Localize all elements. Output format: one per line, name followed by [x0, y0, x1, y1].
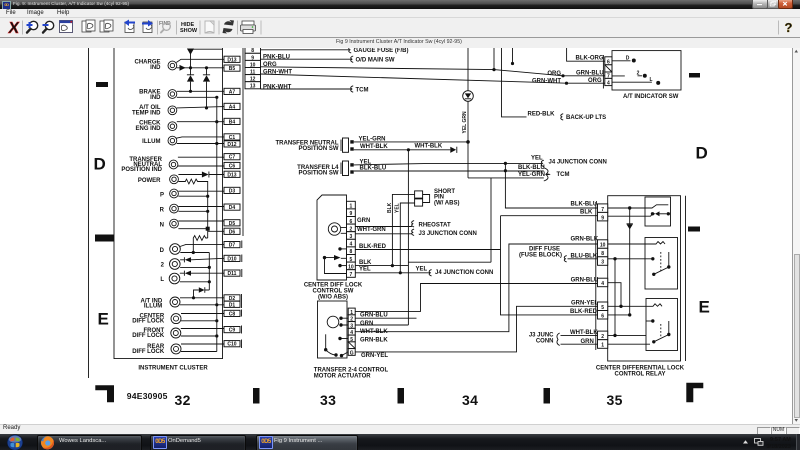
- relay 3 box: [646, 299, 678, 351]
- wire pin1 inside: [608, 343, 650, 345]
- wire pin6 inside: [608, 314, 630, 316]
- relay 1 box: [645, 197, 671, 226]
- node YEL-GRN junction: [466, 140, 470, 144]
- wire ILLUM to D12: [177, 143, 224, 145]
- svg-text:YEL: YEL: [359, 267, 371, 273]
- svg-text:MOTOR ACTUATOR: MOTOR ACTUATOR: [314, 374, 371, 380]
- pin C6: [224, 162, 240, 169]
- wire CHARGE to B5 with arrow: [177, 67, 224, 69]
- pin 4: [598, 278, 608, 287]
- chain vertical lower: [208, 253, 210, 291]
- svg-text:WHT-BLK: WHT-BLK: [570, 330, 598, 336]
- pin 3: [598, 257, 608, 266]
- svg-text:D: D: [160, 248, 165, 254]
- svg-text:3/18/2023: 3/18/2023: [767, 444, 791, 450]
- motor in actuator: [327, 316, 339, 328]
- svg-text:34: 34: [462, 392, 478, 408]
- relay 3 switch: [646, 320, 653, 322]
- svg-text:YEL: YEL: [416, 266, 428, 272]
- svg-text:GRN-WHT: GRN-WHT: [532, 78, 561, 84]
- pin D13 power: [224, 171, 240, 178]
- ondemand5 taskbar button: [150, 435, 246, 450]
- corner mark bottom right: [686, 383, 703, 403]
- svg-text:D12: D12: [227, 142, 236, 148]
- svg-text:A4: A4: [229, 104, 236, 110]
- registration tick bottom 3: [544, 388, 551, 404]
- pin 5: [598, 302, 608, 311]
- pin 9: [245, 53, 261, 61]
- lamp N: [160, 219, 179, 228]
- pin 4: [605, 78, 612, 86]
- svg-text:TCM: TCM: [356, 87, 369, 93]
- pin 8: [598, 248, 608, 257]
- pin D12: [224, 141, 240, 148]
- wire loop via J4 riser: [408, 178, 491, 262]
- pin D11: [224, 270, 240, 277]
- svg-text:WHT-BLK: WHT-BLK: [415, 144, 443, 150]
- relay 2 box: [645, 238, 678, 290]
- pin 10: [598, 240, 608, 249]
- limit switch in actuator: [325, 334, 327, 349]
- transfer L4 position sw connector: [297, 161, 354, 176]
- resistor POWER: [178, 179, 207, 238]
- wire A/T illum to D2: [180, 297, 224, 299]
- svg-text:P: P: [160, 192, 164, 198]
- pin D10: [224, 255, 240, 262]
- fig9 taskbar button (active): [256, 435, 358, 450]
- registration tick bottom 2: [398, 388, 405, 404]
- pin C8: [224, 310, 240, 317]
- connector bracket ticks: [241, 241, 243, 349]
- contact L: [612, 81, 652, 83]
- taskbar: [0, 434, 800, 450]
- lamp POWER: [138, 175, 179, 184]
- svg-text:E: E: [98, 310, 109, 329]
- svg-text:WHT-GRN: WHT-GRN: [357, 227, 386, 233]
- diode D2 on charge-a/t oil link: [203, 68, 210, 75]
- svg-text:(W/ ABS): (W/ ABS): [434, 200, 459, 206]
- registration tick left upper: [96, 82, 108, 87]
- svg-text:BLK-RED: BLK-RED: [570, 309, 598, 315]
- svg-text:C10: C10: [227, 342, 236, 348]
- pin B4: [224, 118, 240, 125]
- diode (one-way) on YEL-GRN riser: [467, 48, 469, 91]
- svg-text:CONTROL RELAY: CONTROL RELAY: [614, 371, 665, 377]
- svg-text:A/T INDICATOR SW: A/T INDICATOR SW: [623, 94, 679, 100]
- svg-text:GRN: GRN: [360, 321, 373, 327]
- svg-text:IND: IND: [150, 95, 161, 101]
- svg-text:1: 1: [601, 343, 604, 349]
- TCM brace: [544, 168, 550, 181]
- pin C10: [224, 341, 240, 348]
- svg-text:RHEOSTAT: RHEOSTAT: [419, 222, 451, 228]
- svg-text:32: 32: [175, 392, 191, 408]
- svg-text:35: 35: [607, 392, 623, 408]
- wire YEL short pin riser: [400, 203, 414, 273]
- system tray: [735, 434, 800, 450]
- svg-text:BLK: BLK: [359, 260, 372, 266]
- toolbar: [0, 18, 800, 38]
- svg-text:2: 2: [601, 334, 604, 340]
- wire A/T OIL to A4: [177, 107, 224, 108]
- pin 5: [347, 255, 356, 263]
- svg-text:D3: D3: [229, 188, 236, 194]
- wire junction to D6: [208, 230, 224, 232]
- svg-text:SHOW: SHOW: [180, 28, 198, 34]
- svg-text:BLK-ORG: BLK-ORG: [576, 55, 604, 61]
- svg-text:DIFF FUSE: DIFF FUSE: [529, 246, 560, 252]
- svg-text:9: 9: [601, 215, 604, 221]
- svg-text:9:57 AM: 9:57 AM: [770, 437, 791, 443]
- wire A/T illum to D1: [180, 304, 224, 306]
- pin B5: [224, 65, 240, 72]
- pin C1: [224, 134, 240, 141]
- svg-text:DIFF LOCK: DIFF LOCK: [132, 319, 165, 325]
- svg-text:ORG: ORG: [547, 71, 561, 77]
- svg-text:YEL: YEL: [531, 155, 543, 161]
- svg-text:RED-BLK: RED-BLK: [528, 112, 556, 118]
- pin 3: [347, 232, 356, 240]
- svg-text:GRN-BLU: GRN-BLU: [571, 278, 599, 284]
- svg-text:BLK-BLU: BLK-BLU: [518, 165, 545, 171]
- svg-text:D7: D7: [229, 243, 236, 249]
- wire FRONT DIFF LOCK to bus: [181, 335, 217, 337]
- pin A4: [224, 103, 240, 110]
- svg-text:INSTRUMENT CLUSTER: INSTRUMENT CLUSTER: [138, 366, 208, 372]
- svg-text:C9: C9: [229, 328, 236, 334]
- lamp A/T OIL TEMP IND: [132, 105, 177, 117]
- wire L to D11: [191, 272, 224, 274]
- stub wire vertical x494: [493, 48, 495, 70]
- relay internal bus: [614, 259, 616, 336]
- svg-text:J3 JUNCTION CONN: J3 JUNCTION CONN: [419, 231, 477, 237]
- relay 2 coil: [608, 242, 665, 245]
- svg-text:GRN-BLK: GRN-BLK: [571, 236, 599, 242]
- svg-text:2: 2: [637, 71, 640, 77]
- window title bar: [0, 0, 800, 9]
- svg-text:4: 4: [607, 81, 610, 87]
- contact 2: [612, 75, 642, 77]
- wire P to D3: [178, 190, 224, 192]
- firefox taskbar button: [37, 435, 142, 450]
- pin 8: [347, 247, 356, 255]
- svg-text:BACK-UP LTS: BACK-UP LTS: [566, 115, 606, 121]
- svg-text:D13: D13: [227, 172, 236, 178]
- wire ILLUM to C1: [176, 137, 224, 138]
- wire YEL-GRN to TCM: [468, 177, 544, 179]
- lamp CENTER DIFF LOCK: [132, 314, 181, 325]
- pin 7: [605, 72, 612, 80]
- pin D2: [224, 295, 240, 302]
- wire CHARGE to D13: [176, 59, 224, 62]
- svg-text:L: L: [649, 77, 652, 83]
- pin A7: [224, 88, 240, 95]
- connector bracket line right of pin boxes: [242, 48, 244, 236]
- svg-text:4: 4: [601, 281, 604, 287]
- svg-text:?: ?: [785, 20, 793, 35]
- svg-text:GRN-BLU: GRN-BLU: [360, 312, 388, 318]
- svg-text:J4 JUNCTION CONN: J4 JUNCTION CONN: [435, 270, 493, 276]
- pin D4: [224, 204, 240, 211]
- svg-text:D10: D10: [227, 256, 236, 262]
- svg-text:TEMP IND: TEMP IND: [132, 110, 161, 116]
- pin 2: [347, 224, 356, 232]
- relay body: [608, 196, 681, 361]
- svg-text:2: 2: [161, 263, 165, 269]
- svg-text:N: N: [160, 222, 164, 228]
- wire 2 to chain: [180, 266, 209, 268]
- wire N to D5: [178, 220, 224, 222]
- wire 2 to D10: [191, 258, 224, 260]
- svg-text:DIFF LOCK: DIFF LOCK: [132, 349, 165, 355]
- svg-text:BLK-RED: BLK-RED: [359, 244, 387, 250]
- svg-text:POWER: POWER: [138, 178, 161, 184]
- relay 2 switch: [608, 258, 651, 260]
- svg-text:10: 10: [600, 243, 606, 249]
- wire FRONT DIFF LOCK to C9: [181, 328, 224, 330]
- svg-text:GRN-YEL: GRN-YEL: [571, 301, 598, 307]
- svg-text:POSITION IND: POSITION IND: [121, 167, 162, 173]
- svg-text:D4: D4: [229, 205, 236, 211]
- diode on L wire: [180, 271, 185, 276]
- svg-text:GRN-YEL: GRN-YEL: [361, 353, 388, 359]
- transfer neutral position sw connector: [276, 138, 354, 152]
- pin 8: [245, 46, 261, 54]
- relay 1 coil: [608, 205, 668, 208]
- pin 2: [348, 315, 355, 323]
- svg-text:ILLUM: ILLUM: [144, 303, 162, 309]
- svg-text:C7: C7: [229, 155, 236, 161]
- pin D1: [224, 301, 240, 308]
- vertical scrollbar: [792, 48, 800, 424]
- svg-text:L: L: [160, 277, 164, 283]
- svg-text:BLK: BLK: [580, 209, 593, 215]
- pin 7: [598, 204, 608, 213]
- svg-text:WHT-BLK: WHT-BLK: [360, 144, 388, 150]
- svg-text:C6: C6: [229, 164, 236, 170]
- wire TNP IND to C6: [178, 165, 224, 167]
- wire BLK relay pin 9 riser to BLK-RED pin 6: [501, 216, 598, 315]
- wire ORG into pin 4: [565, 82, 568, 85]
- pin 7: [347, 270, 356, 278]
- svg-text:B4: B4: [229, 119, 236, 125]
- svg-text:D6: D6: [229, 229, 236, 235]
- pin 1: [347, 201, 356, 209]
- svg-text:D: D: [94, 155, 106, 174]
- pin 6: [605, 57, 612, 66]
- wire R to D4: [178, 206, 224, 208]
- switch contact arrow: [323, 256, 326, 259]
- svg-text:ORG: ORG: [588, 78, 602, 84]
- pin D13: [224, 56, 240, 63]
- svg-text:D5: D5: [229, 221, 236, 227]
- svg-text:POSITION SW: POSITION SW: [298, 170, 338, 176]
- wire TNP IND to C7: [178, 156, 224, 158]
- wire BLK-BLU riser to relay pin 7: [505, 163, 597, 208]
- wire BLK short pin riser: [392, 194, 414, 265]
- svg-text:8: 8: [601, 251, 604, 257]
- caption strip: [0, 38, 800, 49]
- diode D1 on charge-brake link: [187, 74, 194, 76]
- svg-text:GRN-BLK: GRN-BLK: [360, 338, 388, 344]
- wire CENTER DIFF LOCK to bus: [181, 320, 217, 322]
- wire REAR DIFF LOCK to bus: [181, 351, 217, 353]
- relay 3 coil: [608, 304, 662, 307]
- lamp in control sw: [328, 223, 340, 235]
- wire CHECK ENG to B4: [177, 121, 224, 123]
- wire L to chain: [180, 281, 210, 283]
- pin 9: [347, 209, 356, 217]
- svg-text:E: E: [699, 298, 710, 317]
- status bar: [0, 424, 800, 435]
- registration tick left middle: [95, 235, 114, 242]
- svg-text:GAUGE FUSE (F/B): GAUGE FUSE (F/B): [354, 48, 409, 54]
- pin 2: [598, 331, 608, 340]
- svg-text:6: 6: [601, 313, 604, 319]
- svg-text:X: X: [7, 19, 20, 37]
- svg-text:C8: C8: [229, 311, 236, 317]
- diode on relay bus: [629, 208, 631, 315]
- lamp D: [160, 244, 181, 255]
- svg-text:BLK: BLK: [387, 202, 393, 213]
- wire pin2 inside: [608, 334, 646, 336]
- short pin (w/ abs): [415, 189, 460, 207]
- svg-text:D: D: [696, 144, 708, 163]
- pin C9: [224, 327, 240, 334]
- pin 1: [348, 308, 355, 316]
- svg-text:O/D MAIN SW: O/D MAIN SW: [356, 58, 395, 64]
- svg-text:D11: D11: [228, 271, 237, 277]
- svg-text:7: 7: [601, 207, 604, 213]
- lamp BRAKE IND: [139, 89, 177, 101]
- registration tick right middle: [688, 227, 700, 232]
- center diff lock control sw body: [317, 195, 347, 280]
- wire GRN-BLU into pin 7: [561, 74, 564, 77]
- pin 3: [348, 322, 355, 330]
- svg-text:D13: D13: [227, 57, 236, 63]
- svg-text:YEL-GRN: YEL-GRN: [518, 172, 545, 178]
- diode on A/T illum branch: [194, 287, 210, 298]
- wire REAR DIFF LOCK to C10: [181, 343, 224, 345]
- svg-text:5: 5: [601, 305, 604, 311]
- diode on 2 wire: [180, 257, 184, 262]
- wire BLK-ORG: [567, 48, 605, 61]
- svg-text:GRN: GRN: [357, 218, 370, 224]
- svg-text:ENG IND: ENG IND: [135, 126, 161, 132]
- svg-text:(FUSE BLOCK): (FUSE BLOCK): [519, 252, 562, 258]
- lamp CHECK ENG IND: [135, 121, 176, 133]
- pin 4: [348, 328, 355, 336]
- svg-text:TCM: TCM: [557, 172, 570, 178]
- instrument cluster box: [114, 48, 223, 359]
- wire GRN to relay pin 1: [561, 343, 598, 345]
- lamp TRANSFER NEUTRAL POSITION IND: [121, 157, 178, 173]
- svg-text:13: 13: [250, 84, 256, 90]
- svg-text:A7: A7: [229, 89, 236, 95]
- svg-text:YEL: YEL: [395, 203, 401, 213]
- actuator body: [318, 301, 348, 358]
- pin 13: [245, 82, 261, 90]
- svg-text:(W/O ABS): (W/O ABS): [318, 294, 348, 300]
- pin C7: [224, 154, 240, 161]
- wire CENTER DIFF LOCK to C8: [181, 313, 224, 315]
- pin 9: [598, 212, 608, 221]
- wire pin8 to GAUGE FUSE: [261, 49, 350, 51]
- diode POWER to D13: [178, 172, 224, 178]
- pin D5: [224, 220, 240, 227]
- lamp CHARGE IND: [134, 60, 176, 72]
- svg-text:33: 33: [320, 392, 336, 408]
- corner mark bottom left: [95, 385, 114, 402]
- lamp 2: [161, 259, 180, 270]
- registration tick bottom 1: [253, 388, 260, 404]
- svg-text:7: 7: [350, 272, 353, 278]
- pin 10: [347, 262, 356, 270]
- svg-text:CONN: CONN: [536, 339, 554, 345]
- lamp FRONT DIFF LOCK: [132, 328, 181, 339]
- pin D7: [224, 242, 240, 249]
- pin 4: [347, 239, 356, 247]
- menu bar: [0, 9, 800, 19]
- keyway hatched box: [605, 65, 612, 72]
- svg-text:YEL-GRN: YEL-GRN: [359, 136, 386, 142]
- A/T indicator sw body: [612, 51, 681, 90]
- contact D: [612, 60, 631, 62]
- wire R to chain: [178, 210, 207, 212]
- pin 6: [598, 311, 608, 320]
- svg-text:IND: IND: [150, 65, 161, 71]
- wire BRAKE to A7: [177, 90, 224, 92]
- svg-text:R: R: [160, 207, 165, 213]
- wire WHT-BLK riser to actuator pin 3: [407, 150, 409, 325]
- lamp ILLUM: [142, 136, 177, 145]
- schematic page left border: [88, 48, 90, 378]
- svg-text:GRN-BLU: GRN-BLU: [576, 71, 604, 77]
- pin 6: [347, 217, 356, 225]
- pin 12: [245, 75, 261, 83]
- svg-text:B5: B5: [229, 66, 236, 72]
- pin 10: [245, 60, 261, 68]
- resistor on D lamp branch: [193, 236, 207, 253]
- lamp A/T IND ILLUM: [141, 297, 180, 309]
- wire RED-BLK to BACK-UP LTS: [502, 48, 527, 117]
- svg-text:GRN: GRN: [581, 339, 594, 345]
- lamp REAR DIFF LOCK: [132, 344, 181, 355]
- svg-text:POSITION SW: POSITION SW: [298, 146, 338, 152]
- pin 1: [598, 340, 608, 349]
- lamp R: [160, 204, 179, 213]
- pin 11: [245, 68, 261, 76]
- pin D6: [224, 228, 240, 235]
- svg-text:TRANSFER 2-4 CONTROL: TRANSFER 2-4 CONTROL: [314, 367, 389, 373]
- stub wire vertical x512.5: [512, 48, 514, 64]
- lamp L: [160, 273, 179, 284]
- svg-text:DIFF LOCK: DIFF LOCK: [132, 333, 165, 339]
- pin G: [348, 349, 355, 357]
- relay pin bracket: [595, 202, 597, 350]
- svg-text:D1: D1: [229, 302, 236, 308]
- lamp P: [160, 189, 178, 198]
- keyway hatched box: [348, 342, 355, 349]
- svg-text:D: D: [626, 55, 630, 61]
- pin 5: [348, 335, 355, 343]
- svg-text:ILLUM: ILLUM: [142, 139, 160, 145]
- svg-text:3: 3: [601, 260, 604, 266]
- svg-text:G: G: [350, 350, 354, 356]
- svg-text:C1: C1: [229, 135, 236, 141]
- wire D to chain: [180, 252, 209, 254]
- wire BRAKE to bus: [177, 96, 217, 98]
